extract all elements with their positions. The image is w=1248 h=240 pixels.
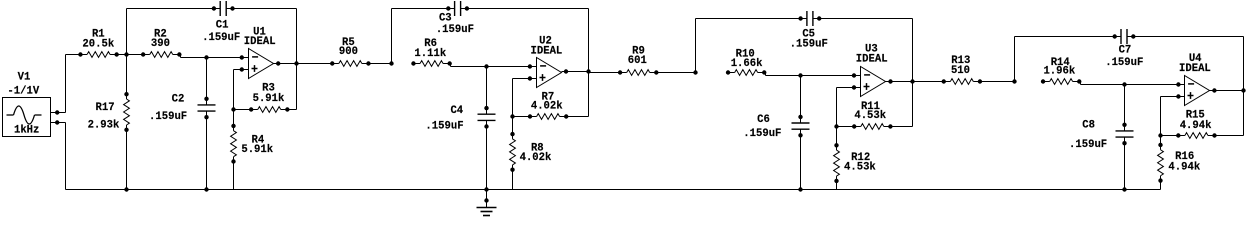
svg-text:20.5k: 20.5k: [82, 39, 114, 51]
wire U2 feedback riser: [512, 79, 514, 135]
resistor R14: [1041, 57, 1082, 84]
wire R17 to ground rail: [126, 55, 128, 95]
wire U4 output: [1210, 90, 1244, 92]
wire V1 down to ground rail: [65, 123, 67, 190]
wire U3 plus input: [837, 87, 861, 89]
wire U4 feedback riser: [1160, 97, 1162, 146]
wire C8 to ground rail: [1124, 137, 1126, 189]
wire node A1 riser to C1 rail: [126, 9, 128, 55]
resistor R6: [411, 38, 452, 66]
wire C3 rail left: [392, 8, 455, 10]
svg-text:390: 390: [151, 38, 170, 50]
svg-text:C3: C3: [439, 12, 452, 24]
op-amp U1 IDEAL: [244, 26, 276, 78]
svg-text:5.91k: 5.91k: [253, 93, 285, 105]
svg-text:.159uF: .159uF: [743, 128, 781, 140]
node stage1 output junction: [294, 61, 298, 65]
U2 non-inverting input pin dot: [528, 76, 532, 80]
wire C7 rail left: [1015, 36, 1122, 38]
wire R12 to ground rail: [836, 181, 838, 190]
svg-text:.159uF: .159uF: [149, 111, 187, 123]
wire R1 to R2: [117, 54, 143, 56]
wire C1 feedback rail right: [226, 8, 296, 10]
svg-text:1.96k: 1.96k: [1043, 65, 1075, 77]
svg-text:4.53k: 4.53k: [854, 110, 886, 122]
wire input row to R1: [66, 54, 81, 56]
wire C2 to ground rail: [206, 111, 208, 189]
resistor R10: [726, 48, 767, 75]
node A4 junction: [1012, 79, 1016, 83]
wire R2 to U1 inverting input with jog: [179, 54, 180, 56]
svg-text:1.11k: 1.11k: [414, 48, 446, 60]
U4 inverting input pin dot: [1176, 82, 1180, 86]
wire R7 feedback row: [513, 116, 531, 118]
svg-text:.159uF: .159uF: [202, 32, 240, 44]
svg-text:R17: R17: [96, 102, 115, 114]
wire stage1 output riser: [296, 9, 298, 64]
wire V1 minus terminal: [51, 122, 66, 124]
resistor R2: [141, 29, 182, 58]
wire R6 to U2 inverting input with jog: [449, 63, 452, 65]
wire R14 to U4 inverting input with jog: [1079, 81, 1080, 83]
wire C2 riser: [206, 58, 208, 105]
node stage2 output junction: [586, 69, 590, 73]
junction C2 at ground rail: [204, 187, 208, 191]
svg-text:2.93k: 2.93k: [88, 120, 120, 132]
wire node A3 riser to C5 rail: [695, 19, 697, 73]
svg-text:5.91k: 5.91k: [241, 144, 273, 156]
U2 output pin dot: [564, 69, 568, 73]
svg-text:.159uF: .159uF: [436, 24, 474, 36]
wire stage3 row: [589, 72, 621, 74]
wire U3 feedback riser: [836, 88, 838, 146]
svg-text:C2: C2: [172, 94, 185, 106]
svg-text:IDEAL: IDEAL: [244, 36, 276, 48]
svg-text:C8: C8: [1082, 120, 1095, 132]
capacitor C1 .159uF: [202, 1, 240, 44]
resistor R9: [618, 46, 659, 76]
U3 output pin dot: [888, 79, 892, 83]
junction R17 at ground rail: [124, 187, 128, 191]
junction R7 left: [510, 114, 514, 118]
svg-text:C7: C7: [1119, 45, 1132, 57]
wire U2 plus input: [513, 78, 537, 80]
wire stage4 row: [913, 81, 944, 83]
wire R10 to U3 inverting input with jog: [764, 72, 765, 74]
svg-text:601: 601: [628, 55, 647, 67]
U4 non-inverting input pin dot: [1176, 94, 1180, 98]
wire U1 plus input: [234, 69, 249, 71]
wire V1 up to signal row: [65, 55, 67, 113]
ground rail: [66, 189, 1161, 191]
resistor R5: [330, 37, 371, 66]
wire R15 feedback row: [1161, 135, 1179, 137]
svg-text:.159uF: .159uF: [425, 121, 463, 133]
wire C1 feedback rail left: [127, 8, 221, 10]
svg-text:V1: V1: [18, 72, 31, 84]
U2 inverting input pin dot: [528, 64, 532, 68]
junction R15 left: [1158, 133, 1162, 137]
capacitor C7 .159uF: [1105, 29, 1143, 69]
svg-text:IDEAL: IDEAL: [531, 46, 563, 58]
wire R9 to node A3: [656, 72, 695, 74]
svg-text:C4: C4: [450, 105, 463, 117]
node stage4 output junction: [1241, 88, 1245, 92]
resistor R1: [78, 28, 119, 57]
wire R5 to node A2: [368, 63, 391, 65]
wire R8 to ground rail: [512, 170, 514, 190]
wire U4 plus input: [1161, 96, 1185, 98]
junction R3 left: [231, 107, 235, 111]
wire C8 riser: [1124, 85, 1126, 131]
node stage3 output junction: [910, 79, 914, 83]
wire C5 rail left: [696, 18, 807, 20]
wire C4 to ground rail: [486, 120, 488, 189]
wire U1 output: [274, 63, 297, 65]
wire node A4 riser to C7 rail: [1014, 37, 1016, 82]
U3 inverting input pin dot: [852, 73, 856, 77]
node C6 top junction: [798, 73, 802, 77]
wire R11 feedback row: [837, 126, 855, 128]
U4 output pin dot: [1212, 88, 1216, 92]
svg-text:-1/1V: -1/1V: [7, 86, 39, 98]
capacitor C6 .159uF: [743, 114, 809, 140]
node A1 junction: [124, 52, 128, 56]
svg-text:IDEAL: IDEAL: [856, 54, 888, 66]
wire C3 rail right: [461, 8, 589, 10]
junction C6 at ground rail: [798, 187, 802, 191]
capacitor C2 .159uF: [149, 94, 215, 124]
wire R16 to ground rail corner: [1160, 181, 1162, 190]
wire stage3 output riser: [912, 19, 914, 82]
node C4 top junction: [484, 64, 488, 68]
svg-text:4.02k: 4.02k: [520, 152, 552, 164]
U1 non-inverting input pin dot: [240, 67, 244, 71]
wire node A2 riser to C3 rail: [391, 9, 393, 64]
wire C5 rail right: [813, 18, 913, 20]
capacitor C4 .159uF: [425, 105, 495, 133]
capacitor C5 .159uF: [790, 11, 828, 51]
wire U3 output: [886, 81, 913, 83]
wire C4 riser: [486, 67, 488, 115]
wire U2 output: [562, 71, 589, 73]
wire V1 plus terminal to node: [51, 112, 66, 114]
capacitor C8 .159uF: [1069, 120, 1133, 151]
ground symbol: [477, 190, 497, 216]
voltage source V1: [3, 72, 60, 137]
wire C6 riser: [800, 76, 802, 124]
svg-text:C6: C6: [757, 114, 770, 126]
wire C6 to ground rail: [800, 129, 802, 189]
svg-text:4.94k: 4.94k: [1168, 161, 1200, 173]
resistor R13: [942, 55, 983, 84]
svg-text:4.53k: 4.53k: [844, 162, 876, 174]
wire R3 feedback row: [234, 109, 252, 111]
wire U1 feedback riser: [233, 70, 235, 127]
resistor R7: [528, 92, 569, 120]
op-amp U4 IDEAL: [1179, 53, 1211, 106]
svg-text:900: 900: [339, 46, 358, 58]
U3 non-inverting input pin dot: [852, 85, 856, 89]
U1 inverting input pin dot: [240, 55, 244, 59]
resistor R4: [231, 124, 274, 164]
svg-text:4.94k: 4.94k: [1180, 120, 1212, 132]
op-amp U2 IDEAL: [531, 35, 563, 87]
node A2 junction: [389, 61, 393, 65]
svg-text:1kHz: 1kHz: [14, 125, 39, 137]
svg-text:IDEAL: IDEAL: [1179, 63, 1211, 75]
junction C4 at ground rail: [484, 187, 488, 191]
svg-text:C1: C1: [216, 19, 229, 31]
svg-text:.159uF: .159uF: [1105, 57, 1143, 69]
wire C7 rail right: [1127, 36, 1244, 38]
wire R13 to node A4: [980, 81, 1014, 83]
wire stage4 output riser: [1243, 37, 1245, 91]
svg-text:4.02k: 4.02k: [531, 101, 563, 113]
resistor R3: [249, 83, 290, 113]
node C2 top junction: [204, 55, 208, 59]
junction C8 at ground rail: [1122, 187, 1126, 191]
capacitor C3 .159uF: [436, 1, 474, 36]
node A3 junction: [693, 70, 697, 74]
junction R11 left: [834, 124, 838, 128]
resistor R17: [88, 92, 130, 132]
resistor R11: [852, 101, 893, 129]
wire stage2 output riser: [588, 9, 590, 72]
wire R4 to ground rail: [233, 162, 235, 190]
svg-text:.159uF: .159uF: [790, 39, 828, 51]
svg-text:1.66k: 1.66k: [731, 58, 763, 70]
node C8 top junction: [1122, 82, 1126, 86]
op-amp U3 IDEAL: [856, 43, 888, 96]
resistor R16: [1158, 143, 1201, 183]
U1 output pin dot: [276, 61, 280, 65]
resistor R8: [510, 132, 552, 172]
resistor R15: [1176, 110, 1217, 139]
svg-text:510: 510: [951, 65, 970, 77]
svg-text:.159uF: .159uF: [1069, 139, 1107, 151]
resistor R12: [834, 143, 877, 183]
wire stage2 row: [297, 63, 333, 65]
